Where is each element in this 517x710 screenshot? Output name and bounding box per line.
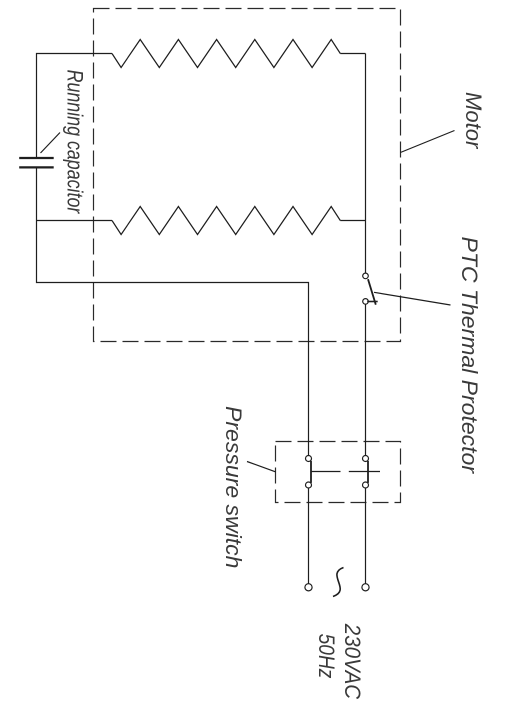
svg-text:PTC Thermal Protector: PTC Thermal Protector (457, 237, 482, 475)
wire: right contact down to terminal (365, 488, 367, 584)
wire: left rail to winding 2 (37, 220, 113, 222)
pressure switch left contact circles (306, 456, 312, 462)
pressure switch right blade (367, 461, 369, 483)
pressure switch left blade (310, 461, 312, 483)
pressure switch dashed box (276, 442, 401, 503)
pressure switch coupling line (311, 471, 341, 473)
wire: winding 2 to right rail (340, 220, 365, 222)
terminal L (305, 584, 312, 591)
wire: PTC to pressure switch right contact (365, 304, 367, 456)
leader: motor (400, 131, 454, 153)
svg-text:230VAC: 230VAC (340, 623, 365, 699)
svg-text:Pressure switch: Pressure switch (221, 406, 246, 569)
resistor winding 1 (main winding) (112, 40, 340, 68)
PTC thermal protector tick (367, 301, 378, 303)
wire: winding 1 to right rail (340, 53, 365, 55)
leader: pressure switch (247, 462, 276, 472)
wire: left contact down to terminal (308, 488, 310, 584)
leader: running capacitor (41, 133, 61, 154)
wire: right rail down to PTC protector (365, 54, 367, 274)
svg-text:Running capacitor: Running capacitor (63, 70, 88, 215)
svg-text:50Hz: 50Hz (314, 634, 339, 679)
wire: top wire from capacitor rail to winding (37, 54, 113, 158)
capacitor C (running capacitor) plates (19, 157, 54, 159)
resistor winding 2 (aux winding) (112, 207, 340, 235)
svg-text:Motor: Motor (461, 92, 486, 150)
pressure switch right contact circles (363, 456, 369, 462)
motor dashed box (94, 9, 401, 342)
leader: PTC thermal protector (374, 292, 451, 305)
AC tilde symbol (333, 568, 344, 597)
PTC thermal protector contact circles (363, 273, 369, 279)
wire: capacitor bottom rail down and across (37, 167, 309, 455)
terminal N (362, 584, 369, 591)
PTC thermal protector blade (368, 279, 376, 305)
